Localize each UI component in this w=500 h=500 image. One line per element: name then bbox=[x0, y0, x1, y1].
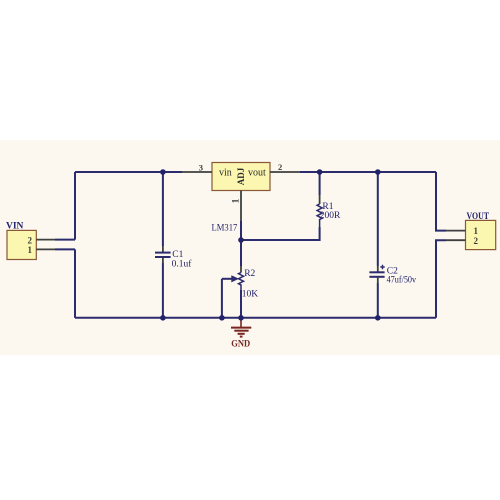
wire: R2 branch bottom bbox=[240, 290, 242, 318]
wire: bottom ground rail bbox=[75, 317, 436, 319]
pin U1.1 (adj) bbox=[240, 191, 242, 221]
svg-text:vin: vin bbox=[219, 168, 232, 179]
wire: LM317 pin1 lower segment bbox=[240, 220, 242, 240]
node: C2 top junction bbox=[375, 169, 381, 175]
resistor R1 bbox=[317, 195, 322, 227]
node: ADJ junction bbox=[238, 237, 244, 243]
wire: C1 branch bottom bbox=[162, 263, 164, 318]
svg-text:GND: GND bbox=[231, 338, 250, 348]
connector VIN (J1) bbox=[7, 230, 36, 259]
wire: left vertical lower (VIN pin1 down) bbox=[74, 249, 76, 317]
wire: right vertical lower (VOUT pin2 down) bbox=[436, 240, 446, 318]
svg-text:2: 2 bbox=[278, 162, 282, 172]
potentiometer R2 bbox=[222, 266, 244, 290]
pin U1.2 (vout) bbox=[270, 171, 300, 173]
wire: R2 wiper vertical bbox=[221, 279, 223, 318]
node: GND junction bbox=[238, 315, 244, 321]
wire: top rail right (LM317 vout to VOUT) bbox=[300, 171, 436, 173]
svg-text:3: 3 bbox=[199, 163, 203, 173]
svg-text:200R: 200R bbox=[320, 211, 341, 221]
wire: R2 branch top bbox=[240, 240, 242, 266]
node: C1 top junction bbox=[160, 169, 166, 175]
wire: C2 branch top bbox=[377, 172, 379, 266]
connector VOUT (J2) bbox=[466, 220, 496, 249]
node: C1 bottom junction bbox=[160, 315, 166, 321]
pin U1.3 (vin) bbox=[182, 171, 212, 173]
svg-text:vout: vout bbox=[248, 168, 266, 179]
svg-text:1: 1 bbox=[232, 198, 242, 203]
wire: top rail left (VIN+ to LM317 vin) bbox=[75, 171, 182, 173]
svg-text:R2: R2 bbox=[244, 269, 255, 279]
capacitor C1 bbox=[155, 246, 171, 263]
wire: VIN pin2 horizontal bbox=[55, 239, 75, 241]
wire: C2 branch bottom bbox=[377, 283, 379, 318]
svg-text:0.1uf: 0.1uf bbox=[172, 259, 193, 270]
pin VIN.1 bbox=[36, 248, 55, 250]
svg-text:2: 2 bbox=[474, 236, 479, 246]
svg-text:2: 2 bbox=[28, 235, 33, 245]
wire: VIN pin1 horizontal bbox=[55, 248, 75, 250]
pin VOUT.2 bbox=[446, 239, 466, 241]
wire: R1 branch bottom and horizontal to LM317 adj bbox=[241, 227, 320, 240]
svg-text:47uf/50v: 47uf/50v bbox=[387, 274, 417, 285]
svg-text:1: 1 bbox=[28, 245, 33, 255]
svg-text:ADJ: ADJ bbox=[236, 167, 246, 185]
pin VOUT.1 bbox=[446, 230, 466, 232]
node: R1 top junction bbox=[317, 169, 323, 175]
node: R2 wiper bottom junction bbox=[219, 315, 225, 321]
pin VIN.2 bbox=[36, 239, 55, 241]
svg-text:10K: 10K bbox=[242, 290, 258, 300]
wire: right vertical upper bbox=[436, 172, 446, 231]
svg-text:VIN: VIN bbox=[6, 222, 24, 232]
wire: C1 branch top bbox=[162, 172, 164, 246]
capacitor C2 (polarized) bbox=[369, 265, 384, 283]
wire: R1 branch top bbox=[319, 172, 321, 195]
svg-text:1: 1 bbox=[474, 226, 479, 236]
regulator U1 LM317 body bbox=[212, 163, 270, 191]
svg-text:VOUT: VOUT bbox=[467, 212, 490, 222]
wire: left vertical upper (VIN pin2 riser) bbox=[74, 172, 76, 240]
ground symbol GND bbox=[231, 318, 251, 337]
node: C2 bottom junction bbox=[375, 315, 381, 321]
svg-text:LM317: LM317 bbox=[212, 224, 238, 234]
